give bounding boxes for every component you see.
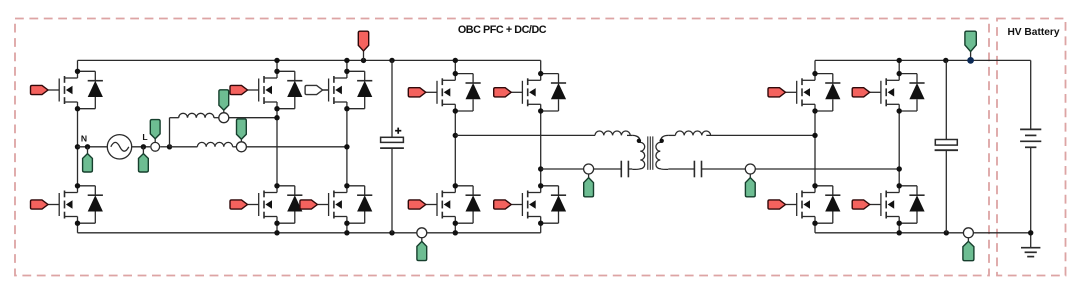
svg-text:N: N (81, 133, 87, 143)
svg-text:L: L (142, 132, 147, 142)
svg-text:HV Battery: HV Battery (1007, 27, 1059, 38)
svg-text:OBC PFC + DC/DC: OBC PFC + DC/DC (458, 24, 547, 36)
